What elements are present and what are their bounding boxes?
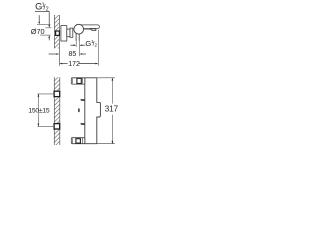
extension line from spout tip	[97, 30, 99, 66]
dimension 85, left outside arrow at wall face	[49, 53, 60, 55]
spout bar	[80, 25, 100, 29]
knob flange edge-on (profile view)	[80, 123, 85, 124]
G 1/2 outlet thread dimension, left outside arrow	[70, 44, 76, 46]
extension line from lower union axis	[37, 125, 54, 127]
lower union square (lower-left view)	[54, 124, 60, 129]
aerator under spout tip	[90, 29, 96, 31]
wall hatch band (connection view)	[54, 77, 60, 145]
G 1/2 outlet thread dimension, right outside arrow	[79, 44, 85, 46]
wall face line / left extension line (top view)	[58, 15, 60, 66]
spout underside line	[83, 29, 91, 31]
label G 1/2 (lower)	[85, 39, 97, 48]
body with outlet boss (profile view)	[85, 78, 101, 144]
connector between escutcheon and body	[67, 29, 70, 37]
escutcheon (side view)	[61, 26, 67, 41]
wall hatch band (top view)	[54, 15, 59, 48]
extension line from upper union axis	[37, 93, 54, 95]
dimension 317 line with arrows	[112, 78, 114, 144]
dimension 85, right outside arrow at outlet axis	[79, 53, 86, 55]
spout flange edge-on (profile view)	[80, 99, 85, 100]
svg-text:Ø70: Ø70	[31, 27, 45, 36]
extension line from stub left edge	[75, 41, 77, 47]
top union assembly nut and escutcheon (profile view)	[71, 78, 85, 84]
label G 1/2 (top)	[35, 2, 49, 13]
dimension 172, left arrow to wall face	[59, 63, 67, 65]
bottom union assembly nut and escutcheon (profile view)	[71, 138, 85, 144]
temperature knob circle	[74, 24, 84, 34]
dimension 172, right arrow to spout tip	[79, 63, 98, 65]
up arrow to union bottom extension	[48, 35, 50, 38]
svg-text:85: 85	[69, 51, 77, 58]
union fitting in wall (top view)	[56, 31, 60, 35]
bottom extension line	[72, 143, 115, 145]
extension line from stub right edge	[78, 41, 80, 56]
wall back edge line (top view)	[53, 15, 55, 48]
wall back edge line (connection view)	[59, 77, 61, 145]
shower outlet stub right line	[78, 34, 80, 41]
down arrow to spout top extension	[38, 15, 40, 22]
lever tip mark (profile view)	[78, 108, 79, 112]
upper union square (lower-left view)	[54, 91, 60, 96]
shower outlet stub left line	[75, 34, 77, 41]
leader line from G 1/2 label down with arrowhead	[48, 12, 50, 26]
svg-text:172: 172	[68, 61, 80, 68]
dimension 150±15 line with arrows	[38, 94, 40, 126]
extension line (union bottom edge)	[40, 34, 51, 36]
extension line (spout top edge)	[37, 24, 51, 26]
underline of G 1/2 label	[35, 11, 50, 13]
front/profile view: top extension line	[72, 77, 115, 79]
svg-text:150±15: 150±15	[28, 107, 49, 114]
body hub	[70, 28, 73, 37]
extension line (union top edge)	[45, 27, 51, 29]
wall face line (connection view)	[53, 77, 55, 145]
svg-text:317: 317	[105, 105, 119, 114]
